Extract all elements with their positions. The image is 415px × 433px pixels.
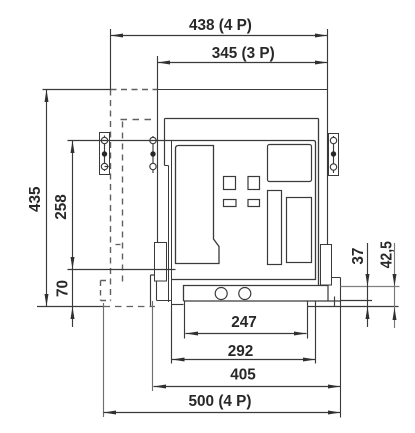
flat button 2 (248, 200, 260, 207)
left notch (151, 275, 156, 307)
right rectangle (287, 198, 312, 263)
ext vertical x=157.5 above band (157, 56, 159, 90)
cradle top band (158, 89, 328, 91)
ext vertical x=327.5 top (327, 29, 329, 90)
svg-text:405: 405 (230, 366, 256, 383)
svg-text:292: 292 (228, 343, 254, 360)
svg-text:37: 37 (350, 248, 367, 265)
svg-text:345 (3 P): 345 (3 P) (212, 45, 275, 62)
left bracket circles (101, 137, 107, 143)
right pad vertical (334, 297, 336, 307)
left mounting bracket (100, 133, 110, 175)
left bracket bolt line (104, 136, 106, 172)
left tall panel (176, 146, 220, 264)
right mounting bracket (329, 134, 339, 176)
left foot pad (157, 281, 172, 301)
svg-text:42,5: 42,5 (379, 241, 396, 268)
svg-text:500 (4 P): 500 (4 P) (189, 393, 252, 410)
dim line 258 / 70 (72, 141, 74, 328)
svg-text:258: 258 (53, 194, 70, 220)
floor line left solid (37, 306, 104, 308)
svg-text:70: 70 (54, 280, 71, 297)
phantom foot top tick (116, 244, 121, 246)
floor line right (308, 306, 399, 308)
dim line 37 (367, 243, 369, 327)
svg-text:438 (4 P): 438 (4 P) (189, 17, 252, 34)
base plate (184, 286, 329, 302)
mid mounting holes (152, 136, 154, 173)
svg-text:247: 247 (231, 314, 257, 331)
body right edge (318, 119, 320, 286)
base circle 2 (239, 288, 251, 300)
right bracket (332, 278, 341, 418)
phantom vertical 1 dashed (110, 90, 112, 301)
ext vertical x=110.5 top (110, 29, 112, 90)
centerline through holes (68, 140, 165, 142)
dim line 435 (46, 90, 48, 307)
dim line 247 (186, 333, 307, 335)
ext horizontal y=89.5 (43, 89, 111, 91)
phantom band top dashed (111, 89, 158, 91)
rating plate (268, 145, 312, 182)
flat button 1 (224, 200, 237, 207)
dim line 438 (111, 35, 328, 37)
body left lip (164, 119, 166, 166)
left rail (157, 90, 159, 243)
right line2 (341, 300, 373, 302)
dim line 500 (104, 412, 341, 414)
face plate outline (165, 141, 316, 280)
dim line 345 (158, 62, 328, 64)
phantom vertical 2 dashed (122, 122, 124, 287)
button square 2 (248, 177, 260, 190)
phantom foot dashed (101, 281, 111, 301)
right rail (327, 90, 329, 246)
right ext line1 (341, 286, 400, 288)
step to base (172, 304, 184, 306)
ext verticals bottom (103, 303, 105, 417)
face left step (165, 141, 172, 306)
arrowheads (45, 34, 397, 415)
ext horizontal y=269.5 (68, 269, 176, 271)
left foot (155, 243, 167, 282)
button square 1 (224, 177, 236, 190)
floor line left dashed (104, 306, 156, 308)
svg-text:435: 435 (27, 186, 44, 212)
dim line 292 (172, 359, 316, 361)
dim line 405 (154, 386, 341, 388)
middle tall rectangle (268, 191, 282, 265)
dim line 42.5 (394, 243, 396, 328)
right foot (321, 245, 332, 286)
base circle 1 (215, 288, 227, 300)
phantom lip dashed (121, 119, 154, 121)
